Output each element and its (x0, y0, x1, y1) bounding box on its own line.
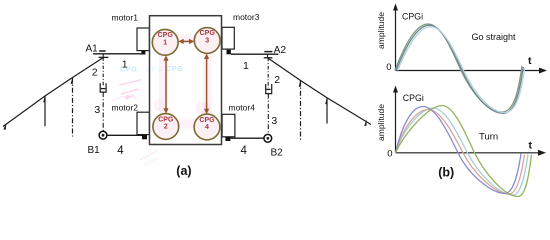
motor2 box (137, 112, 149, 134)
coupling arrow CPG1-CPG2 vertical (163, 55, 168, 113)
right fin ray flag 1 (299, 80, 301, 87)
svg-text:motor4: motor4 (229, 102, 256, 112)
svg-text:3: 3 (205, 38, 209, 45)
svg-text:CPG: CPG (166, 66, 184, 73)
svg-text:CPGi: CPGi (403, 93, 424, 103)
CPG oscillator U3 circle (194, 28, 220, 54)
svg-text:2: 2 (164, 124, 168, 131)
svg-text:motor2: motor2 (112, 102, 139, 112)
link 4 left wire (107, 134, 142, 136)
damper piston left (101, 88, 106, 90)
motor3 shaft square (227, 50, 231, 55)
svg-text:amplitude: amplitude (376, 104, 386, 141)
right fin ray 1 dash-dot (300, 81, 302, 141)
damper cup right (266, 84, 272, 94)
CPG oscillator U4 circle (194, 114, 220, 140)
CPG oscillator U2 circle (153, 114, 179, 140)
link 4 right wire (230, 137, 264, 139)
bottom plot x-axis (396, 152, 540, 154)
motor1 shaft square (141, 51, 145, 55)
bottom plot y-axis (395, 91, 397, 153)
svg-text:Go straight: Go straight (472, 32, 517, 42)
svg-text:CPG: CPG (146, 66, 164, 73)
right fin ray flag 2 (325, 97, 327, 104)
motor2 shaft square (142, 135, 147, 140)
svg-text:1: 1 (163, 39, 167, 46)
svg-text:0: 0 (387, 149, 392, 160)
joint B2 (264, 134, 272, 142)
link 3 left dash-dot rod (102, 92, 104, 131)
left fin ray 2 dash-dot (72, 78, 74, 137)
right fin ray 2 solid (326, 98, 328, 124)
link 1 left wire (93, 53, 142, 55)
main body rectangle (150, 16, 222, 145)
bottom plot cyan curve (396, 108, 529, 195)
right fin end barb (364, 119, 366, 126)
svg-text:B1: B1 (88, 145, 101, 156)
bottom plot purple curve (396, 107, 522, 194)
top plot green curve (395, 24, 522, 112)
svg-text:1: 1 (122, 59, 128, 71)
svg-text:2: 2 (274, 74, 280, 86)
coupling arrow CPG1-CPG3 horizontal (178, 39, 194, 44)
motor3 box (222, 27, 234, 49)
link 1 right wire (231, 53, 279, 55)
svg-text:3: 3 (94, 104, 100, 116)
damper cup left (100, 83, 106, 92)
link 3 right dash-dot rod (267, 94, 269, 135)
top plot slate curve (396, 25, 523, 113)
joint B1 (99, 131, 107, 139)
svg-text:1: 1 (243, 60, 249, 72)
link 2 right dashed rod (267, 58, 269, 88)
svg-text:B2: B2 (271, 148, 284, 159)
joint A1 T-bar (99, 56, 109, 58)
left fin end barb (3, 123, 6, 130)
link 2 left dashed rod (102, 57, 104, 87)
motor4 box (222, 114, 235, 137)
top plot pale blue curve (398, 27, 525, 113)
svg-text:t: t (528, 55, 532, 67)
svg-text:(b): (b) (438, 166, 454, 180)
svg-text:Turn: Turn (479, 132, 498, 143)
motor4 shaft square (225, 137, 230, 141)
svg-text:(a): (a) (176, 164, 191, 178)
left fin ray 1 solid (44, 96, 46, 126)
motor1 box (137, 28, 149, 51)
svg-text:amplitude: amplitude (376, 12, 386, 49)
svg-text:0: 0 (386, 62, 391, 73)
watermark cyan text CPG row (120, 66, 184, 74)
svg-text:A1: A1 (86, 44, 99, 55)
top plot x-axis (396, 70, 541, 72)
svg-text:CPG: CPG (200, 30, 216, 37)
svg-text:motor1: motor1 (112, 13, 139, 23)
svg-text:t: t (529, 140, 533, 152)
right fin spar diagonal (268, 58, 372, 125)
svg-text:2: 2 (92, 67, 98, 79)
left fin spar diagonal (3, 58, 103, 127)
joint A1 pin dash (99, 50, 106, 52)
coupling arrow CPG3-CPG4 vertical (204, 54, 209, 115)
joint A2 pin dash (264, 51, 272, 53)
watermark pink loop around CPG group (164, 39, 208, 124)
svg-text:A2: A2 (274, 45, 287, 56)
left fin ray flag 1 (43, 95, 45, 102)
svg-text:4: 4 (205, 124, 209, 131)
watermark pink scribbles (112, 80, 158, 166)
svg-text:CPG: CPG (199, 117, 215, 124)
svg-text:3: 3 (271, 115, 277, 127)
damper piston right (266, 88, 271, 90)
svg-text:4: 4 (241, 145, 248, 157)
top plot y-axis (395, 9, 397, 71)
svg-text:CPG: CPG (158, 32, 174, 39)
bottom plot salmon curve (396, 110, 525, 195)
svg-text:motor3: motor3 (233, 12, 260, 22)
joint A2 T-bar (264, 57, 273, 59)
CPG oscillator U1 circle (152, 29, 178, 55)
left fin ray flag 2 (71, 77, 73, 84)
svg-text:CPGi: CPGi (402, 11, 423, 21)
bottom plot green curve (396, 106, 532, 197)
svg-text:4: 4 (117, 145, 124, 157)
svg-text:CPG: CPG (158, 116, 174, 123)
